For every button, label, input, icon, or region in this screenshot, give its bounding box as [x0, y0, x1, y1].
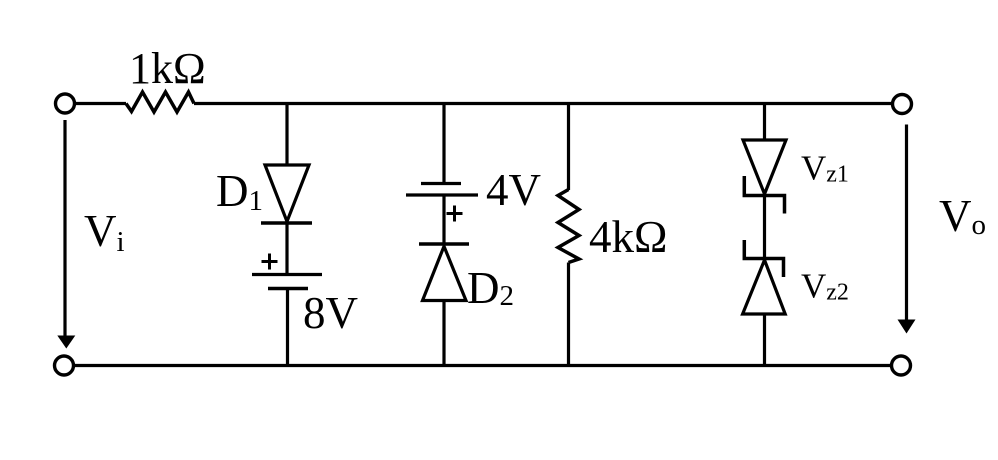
terminal BL (input -) — [55, 356, 74, 375]
battery 4V positive plate (long) — [406, 193, 478, 196]
wire: node B down to battery 4V — [442, 104, 445, 184]
battery 4V negative plate (short) — [421, 182, 461, 185]
diode D1 cathode bar — [261, 221, 312, 225]
wire: D1 cathode to battery 8V — [285, 223, 288, 274]
svg-text:8V: 8V — [303, 288, 358, 338]
wire: top rail from R1 to right terminal (nodes A,B,C,D) — [194, 102, 892, 105]
wire: Vz2 anode to bottom rail — [763, 314, 766, 366]
wire: node C down to R2 — [567, 104, 570, 191]
arrow Vo (output voltage, pointing down) — [898, 125, 916, 334]
svg-text:4V: 4V — [486, 165, 541, 215]
zener Vz2 cathode bar with bent ends — [744, 240, 783, 277]
terminal BR (output -) — [892, 356, 911, 375]
wire: bottom rail — [74, 364, 891, 367]
wire: Vz1 cathode to Vz2 cathode — [763, 196, 766, 259]
wire: battery 8V to bottom rail — [286, 289, 289, 366]
svg-text:D1: D1 — [216, 166, 263, 217]
svg-text:D2: D2 — [467, 263, 514, 313]
arrow Vi (input voltage, pointing down) — [57, 120, 75, 349]
zener diode Vz1 (triangle, pointing down) — [743, 140, 786, 194]
wire: node D down to Vz1 anode — [763, 104, 766, 141]
battery 4V plus sign — [447, 206, 463, 222]
svg-text:Vi: Vi — [84, 206, 125, 258]
battery 8V positive plate (long) — [252, 273, 322, 276]
svg-text:4kΩ: 4kΩ — [589, 212, 667, 262]
wire: D2 anode to bottom rail — [442, 301, 445, 366]
diode D2 (triangle, pointing up) — [423, 246, 467, 300]
diode D1 (triangle, pointing down) — [265, 165, 309, 222]
svg-text:Vo: Vo — [939, 191, 986, 241]
battery 8V plus sign — [262, 254, 278, 270]
battery 8V negative plate (short) — [268, 287, 308, 291]
zener Vz1 cathode bar with bent ends — [744, 176, 784, 214]
terminal TL (input +) — [56, 94, 75, 113]
diode D2 cathode bar — [419, 242, 469, 246]
zener diode Vz2 (triangle, pointing up) — [743, 260, 786, 314]
svg-text:Vz1: Vz1 — [801, 149, 849, 188]
wire: left terminal to R1 — [75, 102, 127, 105]
wire: R2 to bottom rail — [567, 263, 570, 366]
svg-text:Vz2: Vz2 — [801, 267, 849, 306]
svg-text:1kΩ: 1kΩ — [129, 44, 206, 93]
resistor 4kOhm (shunt) — [558, 190, 579, 263]
wire: node A down to D1 anode — [285, 104, 288, 166]
resistor 1kOhm (series) — [126, 92, 194, 112]
terminal TR (output +) — [893, 95, 912, 114]
wire: battery 4V to D2 cathode — [442, 195, 445, 244]
